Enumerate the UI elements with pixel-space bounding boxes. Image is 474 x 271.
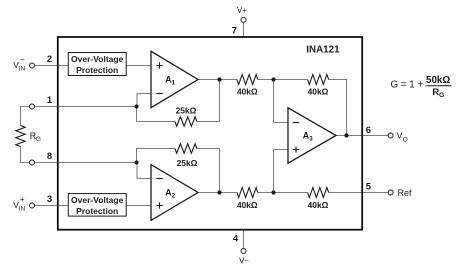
svg-text:6: 6 (366, 125, 371, 136)
resistor RG external gain resistor (16, 126, 25, 147)
svg-text:V−: V− (239, 256, 249, 265)
wire over-voltage protection 1 to A1 noninverting input (126, 65, 151, 67)
wire A3 output to pin 6 (336, 135, 389, 137)
junction A2 output node (217, 190, 221, 194)
svg-text:Protection: Protection (76, 65, 118, 75)
op-amp A1 (151, 51, 198, 107)
svg-text:1: 1 (172, 79, 176, 86)
wire RG left leg bottom (21, 147, 30, 163)
svg-text:−: − (20, 55, 25, 64)
resistor R3 40kohm top left (237, 75, 258, 85)
resistor R6 40kohm bottom right (308, 188, 329, 198)
resistor R2 25kohm (175, 144, 197, 153)
svg-text:3: 3 (47, 194, 52, 205)
svg-text:IN: IN (19, 66, 25, 73)
svg-text:7: 7 (232, 25, 237, 36)
terminal circle pin 5 (388, 190, 393, 195)
wire A1 feedback via 25k (137, 107, 175, 122)
resistor R1 25kohm (175, 117, 197, 126)
op-amp A3 (288, 108, 336, 163)
terminal circle pin 7 (241, 17, 246, 22)
svg-text:25kΩ: 25kΩ (177, 158, 198, 168)
wire between 40k resistors bottom (258, 192, 308, 194)
wire RG left leg top (21, 107, 30, 126)
svg-text:40kΩ: 40kΩ (308, 87, 329, 97)
wire pin 8 row (34, 162, 136, 164)
wire pin 4 V- lead (243, 230, 245, 249)
svg-text:5: 5 (366, 182, 372, 193)
wire pin 7 V+ lead (243, 22, 245, 37)
svg-text:8: 8 (47, 151, 52, 162)
svg-text:V+: V+ (237, 6, 247, 15)
wire A2 output rail (198, 192, 237, 194)
svg-text:2: 2 (172, 192, 176, 199)
junction A3 inverting node (271, 77, 275, 81)
terminal circle pin 1 (30, 104, 35, 109)
IC package outline INA121 (58, 37, 362, 230)
wire A2 feedback via 25k (137, 149, 175, 163)
svg-text:G: G (36, 136, 41, 143)
wire node 1 to A1 inverting input (137, 94, 152, 107)
svg-text:INA121: INA121 (306, 44, 340, 55)
svg-text:Over-Voltage: Over-Voltage (71, 195, 124, 205)
svg-text:50kΩ: 50kΩ (426, 75, 450, 86)
resistor R5 40kohm top right (308, 75, 329, 85)
svg-text:40kΩ: 40kΩ (308, 200, 329, 210)
resistor R4 40kohm bottom left (237, 188, 258, 198)
svg-text:IN: IN (19, 206, 25, 213)
svg-text:O: O (403, 136, 408, 143)
svg-text:25kΩ: 25kΩ (176, 105, 197, 115)
svg-text:+: + (20, 195, 25, 204)
wire between 40k resistors top (258, 79, 308, 81)
terminal circle pin 8 (30, 160, 35, 165)
wire A1 output rail (198, 79, 237, 81)
wire pin 1 row (34, 106, 136, 108)
terminal circle pin 6 (388, 133, 393, 138)
svg-text:G = 1 +: G = 1 + (391, 80, 424, 91)
terminal circle pin 2 (30, 63, 35, 68)
wire node 2 to A2 inverting input (137, 163, 152, 179)
svg-text:Protection: Protection (76, 206, 118, 216)
terminal circle pin 3 (30, 203, 35, 208)
op-amp A2 (151, 165, 198, 221)
junction A3 noninverting node (271, 190, 275, 194)
wire over-voltage protection 2 to A2 noninverting input (126, 205, 151, 207)
over-voltage protection block 2 (68, 194, 126, 217)
wire node to A3 inverting input (274, 80, 289, 123)
svg-text:40kΩ: 40kΩ (237, 200, 258, 210)
svg-text:Over-Voltage: Over-Voltage (71, 54, 124, 64)
wire 40k feedback to A3 output node (329, 80, 347, 136)
terminal circle pin 4 (241, 249, 246, 254)
junction node A2 inverting (134, 160, 138, 164)
svg-text:G: G (439, 92, 444, 99)
wire pin 3 input (34, 205, 68, 207)
svg-text:2: 2 (47, 54, 52, 65)
svg-text:Ref: Ref (398, 188, 413, 198)
svg-text:4: 4 (233, 234, 239, 245)
wire pin 2 input (34, 65, 68, 67)
junction A1 output node (217, 77, 221, 81)
svg-text:40kΩ: 40kΩ (237, 87, 258, 97)
junction A3 output node (344, 133, 348, 137)
wire 40k to pin 5 Ref (329, 192, 389, 194)
wire A3 noninverting input to bottom rail (274, 150, 289, 193)
svg-text:1: 1 (47, 95, 53, 106)
junction node A1 inverting (134, 104, 138, 108)
over-voltage protection block 1 (68, 53, 126, 76)
svg-text:3: 3 (309, 135, 313, 142)
